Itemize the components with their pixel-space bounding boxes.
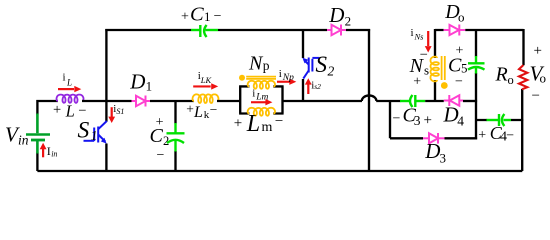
svg-text:2: 2 xyxy=(328,64,335,79)
svg-text:3: 3 xyxy=(440,151,447,166)
wire hop to C3 xyxy=(376,100,400,102)
svg-text:+: + xyxy=(413,74,421,89)
svg-text:L: L xyxy=(66,77,72,87)
arrow iL xyxy=(58,86,81,92)
svg-text:s: s xyxy=(424,62,429,77)
svg-text:o: o xyxy=(540,71,547,86)
wire Lk to transformer xyxy=(217,100,240,102)
winding Ns vertical xyxy=(434,29,436,101)
svg-text:2: 2 xyxy=(345,14,352,29)
svg-text:Ns: Ns xyxy=(414,32,425,42)
svg-text:m: m xyxy=(262,120,273,135)
resistor Ro xyxy=(522,29,523,171)
svg-text:o: o xyxy=(508,73,514,87)
svg-text:+: + xyxy=(534,43,542,59)
svg-text:s2: s2 xyxy=(314,82,321,91)
svg-text:−: − xyxy=(157,148,165,163)
svg-text:L: L xyxy=(193,104,203,121)
wire D1 to Lk xyxy=(150,100,194,102)
svg-text:−: − xyxy=(214,9,222,24)
svg-text:5: 5 xyxy=(461,61,468,76)
svg-text:2: 2 xyxy=(163,134,169,148)
svg-text:−: − xyxy=(275,113,283,129)
dot Ns polarity xyxy=(441,82,448,89)
svg-text:in: in xyxy=(51,149,57,158)
svg-text:+: + xyxy=(424,112,432,128)
svg-text:+: + xyxy=(186,101,194,116)
svg-text:in: in xyxy=(18,132,29,147)
capacitor C5 branch xyxy=(475,29,477,101)
svg-text:D: D xyxy=(328,3,344,27)
arrow iNs xyxy=(425,31,432,53)
svg-text:LK: LK xyxy=(200,75,213,85)
svg-text:+: + xyxy=(53,102,61,118)
transistor S1 xyxy=(105,101,107,122)
diode D2 xyxy=(327,25,346,36)
wire D4 to C5 junction xyxy=(463,100,477,102)
svg-text:i: i xyxy=(63,72,66,84)
svg-text:R: R xyxy=(495,64,508,86)
svg-text:−: − xyxy=(78,103,86,119)
svg-text:−: − xyxy=(532,88,540,104)
wire top-left vertical xyxy=(105,29,107,101)
diode D1 xyxy=(132,96,151,107)
svg-text:Lm: Lm xyxy=(255,93,268,103)
svg-text:S: S xyxy=(78,118,90,144)
transformer primary loop frame xyxy=(239,86,284,113)
capacitor C1 xyxy=(191,25,218,37)
wire hop over vertical xyxy=(362,95,377,101)
diode D3 xyxy=(423,133,445,144)
svg-text:i: i xyxy=(252,88,255,100)
svg-text:1: 1 xyxy=(204,9,211,24)
capacitor C4 xyxy=(487,114,512,126)
svg-text:Np: Np xyxy=(282,73,294,83)
transformer core bars (secondary) xyxy=(442,56,445,80)
wire C3 to D4 xyxy=(425,100,444,102)
svg-text:i: i xyxy=(411,27,414,39)
svg-text:o: o xyxy=(458,10,465,25)
svg-text:C: C xyxy=(150,125,164,147)
svg-text:C: C xyxy=(448,54,462,76)
svg-text:L: L xyxy=(246,111,260,137)
wire bottom rail xyxy=(37,170,522,172)
arrow Iin xyxy=(40,143,47,158)
svg-text:I: I xyxy=(47,144,51,158)
diode D4 (pointing left) xyxy=(444,95,463,106)
transformer core bars (primary) xyxy=(246,77,276,79)
inductor L xyxy=(57,95,84,103)
svg-text:C: C xyxy=(190,3,204,25)
winding Np xyxy=(248,81,275,89)
svg-text:1: 1 xyxy=(146,79,153,94)
svg-text:D: D xyxy=(443,102,459,126)
svg-text:+: + xyxy=(478,128,486,143)
wire top rail left section xyxy=(105,29,370,31)
svg-text:+: + xyxy=(234,115,242,131)
svg-text:S: S xyxy=(316,52,328,77)
wire main y101 L to D1 xyxy=(82,100,132,102)
wire D3 row xyxy=(390,100,477,138)
svg-text:−: − xyxy=(506,129,514,144)
wire D2-cathode vertical down xyxy=(368,29,370,170)
wire top rail right section xyxy=(435,29,524,31)
wire vertical x476 down xyxy=(475,101,477,139)
svg-text:−: − xyxy=(455,75,463,90)
arrow iS1 xyxy=(108,107,115,123)
svg-text:L: L xyxy=(65,102,75,121)
wire C4 row xyxy=(476,119,523,121)
svg-text:D: D xyxy=(424,139,440,163)
svg-text:−: − xyxy=(393,111,401,126)
svg-text:−: − xyxy=(210,102,218,117)
arrow iLm xyxy=(251,99,272,105)
arrow iS2 xyxy=(305,78,312,94)
svg-text:D: D xyxy=(129,70,145,94)
arrow iNp xyxy=(277,79,296,85)
dot Np polarity xyxy=(239,75,245,81)
svg-text:+: + xyxy=(181,9,189,24)
inductor Lk xyxy=(193,94,219,103)
wire left rail xyxy=(36,100,58,171)
svg-text:i: i xyxy=(279,68,282,80)
diode Do xyxy=(444,25,466,36)
wire transformer to hop xyxy=(283,100,363,102)
svg-text:4: 4 xyxy=(457,113,464,128)
svg-text:3: 3 xyxy=(414,113,421,128)
battery Vin xyxy=(26,114,50,154)
capacitor C3 xyxy=(400,95,425,107)
winding Lm xyxy=(248,108,275,116)
svg-text:S1: S1 xyxy=(116,107,124,116)
svg-text:N: N xyxy=(248,52,264,74)
transistor S2 xyxy=(302,29,304,101)
capacitor C2 branch xyxy=(174,101,176,170)
arrow iLK xyxy=(193,83,218,89)
svg-text:1: 1 xyxy=(91,129,98,144)
svg-text:p: p xyxy=(263,58,270,73)
